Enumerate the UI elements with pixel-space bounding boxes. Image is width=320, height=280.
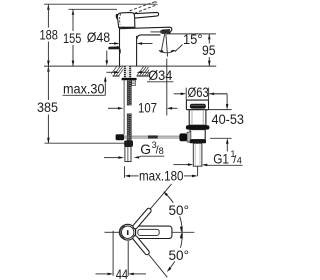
dimension max.30 (deck thickness) <box>63 51 109 97</box>
spout aerator <box>160 29 169 33</box>
hose end tubes (G3/8) <box>125 147 131 162</box>
extension line 155 level <box>69 8 118 10</box>
dimension 155 <box>63 9 82 66</box>
pull-rod knob behind lever <box>108 46 120 53</box>
extension line top (raised lever tip, 188) <box>44 3 157 5</box>
label 15° with leader <box>175 32 203 52</box>
svg-text:G: G <box>140 142 151 157</box>
mounting washer under deck <box>122 78 137 80</box>
faucet lever handle (solid, horizontal) <box>116 12 159 19</box>
drain waste neck <box>189 110 206 126</box>
label G1 1/4 with arrows <box>173 149 242 166</box>
deck / countertop section <box>111 66 149 76</box>
drain waste flange <box>186 100 208 110</box>
svg-text:155: 155 <box>63 31 82 46</box>
label Ø63 with arrows <box>174 85 227 100</box>
faucet lever raised 15° (dashed) <box>130 2 158 13</box>
svg-text:188: 188 <box>40 27 59 42</box>
label Ø34 underlined <box>147 68 174 83</box>
svg-text:40-53: 40-53 <box>212 112 245 127</box>
svg-text:Ø48: Ø48 <box>87 30 111 45</box>
braided supply hose (lower part) <box>127 113 132 140</box>
drain tailpipe <box>193 143 202 166</box>
svg-text:Ø63: Ø63 <box>188 85 209 100</box>
dimension 44 <box>96 231 147 280</box>
svg-text:max.30: max.30 <box>63 82 105 97</box>
label 50° upper <box>168 203 191 219</box>
aerator height extension line <box>167 33 216 35</box>
drain collar <box>190 140 206 144</box>
top view lever rotated up 50° <box>132 184 171 230</box>
drain linkage rod <box>124 135 180 138</box>
dimension 40-53 <box>207 94 244 152</box>
dimension 385 <box>37 66 58 143</box>
svg-text:50°: 50° <box>169 203 190 219</box>
svg-text:107: 107 <box>138 100 157 115</box>
faucet cartridge knuckle <box>117 12 134 27</box>
dimension 95 <box>202 34 216 66</box>
braided supply hose (upper part) <box>127 80 132 105</box>
lower 50° arc with arrowhead <box>167 233 183 272</box>
drain pipe center extension <box>197 166 199 176</box>
label Ø48 with dimension arrows <box>87 30 153 45</box>
top view axis line right <box>172 231 195 233</box>
drain waste lower body <box>190 130 205 140</box>
svg-text:95: 95 <box>202 43 216 58</box>
top view lever rotated down 50° <box>132 235 167 277</box>
drain waste seal ring <box>186 125 210 129</box>
drain ball-rod socket <box>179 132 191 143</box>
top view body circle <box>120 224 136 240</box>
deck top extension line <box>44 65 216 67</box>
mounting bracket <box>132 80 136 85</box>
faucet body column <box>118 27 136 66</box>
top view axis line left <box>105 231 120 233</box>
svg-text:G1: G1 <box>213 152 229 167</box>
label G3/8 with arrows <box>104 140 164 159</box>
pull rod below deck <box>123 80 125 134</box>
faucet spout <box>120 27 172 39</box>
top view lever horizontal <box>136 226 172 238</box>
dimension max.180 <box>125 166 198 183</box>
svg-text:max.180: max.180 <box>139 169 184 184</box>
upper 50° arc with arrowheads <box>163 191 183 232</box>
stream extension line down to 107 <box>166 59 168 116</box>
water stream lines with 15° angle <box>159 34 176 57</box>
svg-text:385: 385 <box>37 100 58 115</box>
threaded shank through deck <box>124 66 132 78</box>
drain linkage clamp <box>116 134 125 140</box>
dimension 107 (spout reach) <box>108 100 177 115</box>
Ø34 dimension arrows (deck hole) <box>107 71 149 74</box>
hose connection nut <box>124 141 133 147</box>
svg-text:4: 4 <box>237 155 242 165</box>
svg-text:8: 8 <box>159 146 164 156</box>
svg-text:Ø34: Ø34 <box>148 68 172 83</box>
hose end extension line (385 bottom) <box>45 142 125 144</box>
svg-text:44: 44 <box>116 267 129 280</box>
label 50° lower <box>168 248 191 264</box>
svg-text:50°: 50° <box>169 248 190 264</box>
dimension 188 <box>40 4 59 66</box>
